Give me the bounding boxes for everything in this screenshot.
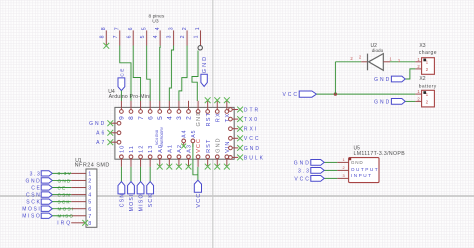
svg-text:diodo: diodo — [372, 48, 384, 53]
svg-text:3.3: 3.3 — [30, 171, 42, 177]
svg-text:GND: GND — [294, 160, 311, 166]
svg-text:7: 7 — [138, 116, 145, 120]
svg-text:DNEROGRV: DNEROGRV — [160, 126, 164, 146]
svg-text:CE: CE — [119, 67, 124, 77]
svg-text:A4: A4 — [182, 129, 188, 137]
svg-text:GND: GND — [25, 178, 41, 184]
svg-text:2: 2 — [180, 35, 186, 38]
svg-text:3: 3 — [88, 186, 91, 192]
svg-text:RX: RX — [215, 112, 221, 122]
svg-text:Arduino Pro-Mini: Arduino Pro-Mini — [109, 94, 151, 100]
svg-text:1: 1 — [342, 158, 344, 162]
svg-text:CE: CE — [58, 185, 67, 190]
svg-text:GND: GND — [244, 146, 261, 152]
svg-text:CSN: CSN — [119, 193, 125, 208]
svg-text:12: 12 — [139, 145, 145, 153]
svg-text:MISO: MISO — [22, 214, 41, 220]
svg-text:GND: GND — [215, 137, 221, 152]
svg-text:OUTPUT: OUTPUT — [351, 167, 379, 172]
svg-text:8: 8 — [128, 116, 135, 120]
svg-text:1: 1 — [426, 60, 429, 65]
svg-text:3.3V: 3.3V — [58, 171, 72, 176]
svg-text:VCC: VCC — [282, 92, 299, 98]
svg-text:5: 5 — [157, 116, 164, 120]
svg-text:NC4 GNU: NC4 GNU — [155, 129, 159, 145]
svg-text:CSN: CSN — [58, 192, 72, 197]
svg-text:INPUT: INPUT — [351, 173, 373, 178]
svg-text:10: 10 — [120, 145, 126, 153]
svg-text:1: 1 — [426, 92, 429, 97]
svg-text:IRQ: IRQ — [57, 221, 72, 227]
svg-text:A0: A0 — [158, 144, 164, 153]
svg-text:7: 7 — [88, 214, 91, 220]
svg-text:VCC: VCC — [196, 192, 202, 207]
svg-text:1: 1 — [195, 27, 201, 30]
svg-text:LM1117T-3.3/NOPB: LM1117T-3.3/NOPB — [354, 151, 406, 157]
svg-text:MOSI: MOSI — [58, 207, 75, 212]
svg-text:8: 8 — [88, 221, 91, 227]
svg-text:U3: U3 — [152, 19, 159, 25]
svg-text:MISO: MISO — [139, 193, 145, 211]
svg-text:GND: GND — [58, 178, 72, 183]
svg-text:MOSI: MOSI — [22, 207, 41, 213]
svg-text:1: 1 — [194, 35, 200, 38]
svg-text:charge: charge — [419, 50, 437, 56]
svg-text:SCK: SCK — [148, 193, 154, 207]
svg-text:8: 8 — [101, 27, 107, 30]
svg-text:GND: GND — [351, 160, 364, 165]
svg-text:RXI: RXI — [244, 127, 258, 133]
svg-text:2: 2 — [186, 116, 193, 120]
svg-text:2: 2 — [342, 166, 344, 170]
svg-text:VCC: VCC — [196, 138, 202, 153]
svg-text:battery: battery — [419, 83, 437, 89]
svg-text:A5: A5 — [191, 129, 197, 137]
svg-text:3.3: 3.3 — [298, 168, 311, 174]
svg-text:6: 6 — [126, 35, 132, 38]
svg-text:6: 6 — [147, 116, 154, 120]
svg-text:GND: GND — [374, 77, 391, 83]
svg-text:RST: RST — [206, 112, 212, 127]
svg-text:A6: A6 — [96, 131, 106, 137]
svg-text:SCK: SCK — [58, 199, 71, 204]
svg-text:VCC: VCC — [294, 176, 311, 182]
svg-text:NFR24 SMD: NFR24 SMD — [75, 162, 110, 168]
svg-text:GND: GND — [196, 110, 202, 126]
svg-text:MISO: MISO — [58, 214, 75, 219]
svg-text:A7: A7 — [96, 140, 106, 146]
svg-text:GND: GND — [374, 99, 391, 105]
svg-text:2: 2 — [88, 179, 91, 185]
svg-text:4: 4 — [155, 27, 161, 30]
svg-text:GND: GND — [202, 55, 208, 73]
svg-text:3: 3 — [176, 116, 183, 120]
svg-text:2: 2 — [426, 99, 429, 104]
svg-text:A1: A1 — [167, 144, 173, 153]
svg-text:3: 3 — [168, 27, 174, 30]
svg-text:DTR: DTR — [244, 107, 260, 113]
svg-text:1: 1 — [88, 172, 91, 178]
svg-text:CSN: CSN — [26, 192, 41, 198]
svg-text:MOSI: MOSI — [129, 193, 135, 211]
svg-text:5: 5 — [141, 27, 147, 30]
svg-text:2: 2 — [182, 27, 188, 30]
svg-text:9: 9 — [119, 116, 126, 120]
svg-text:X2: X2 — [419, 76, 425, 82]
svg-text:2: 2 — [426, 67, 429, 72]
svg-text:A3: A3 — [187, 144, 193, 153]
svg-text:VCC: VCC — [244, 136, 261, 142]
svg-text:5: 5 — [140, 35, 146, 38]
svg-text:5: 5 — [88, 200, 91, 206]
svg-text:8 pines: 8 pines — [149, 13, 165, 19]
svg-text:4: 4 — [153, 35, 159, 38]
svg-text:8: 8 — [99, 35, 105, 38]
svg-text:X3: X3 — [419, 43, 425, 49]
svg-text:TX0: TX0 — [244, 117, 259, 123]
svg-text:7: 7 — [113, 35, 119, 38]
svg-text:BULK: BULK — [244, 155, 265, 161]
svg-text:SCK: SCK — [26, 200, 41, 206]
svg-text:6: 6 — [88, 207, 91, 213]
svg-text:A2: A2 — [177, 144, 183, 153]
svg-text:GND: GND — [89, 121, 106, 127]
svg-text:3: 3 — [167, 35, 173, 38]
svg-text:11: 11 — [129, 145, 135, 153]
svg-text:4: 4 — [167, 116, 174, 120]
svg-text:13: 13 — [148, 145, 154, 153]
svg-text:3: 3 — [342, 174, 344, 178]
svg-text:CE: CE — [31, 185, 41, 191]
svg-text:4: 4 — [88, 193, 91, 199]
svg-text:6: 6 — [128, 27, 134, 30]
svg-text:RST: RST — [206, 139, 212, 153]
svg-text:7: 7 — [114, 27, 120, 30]
